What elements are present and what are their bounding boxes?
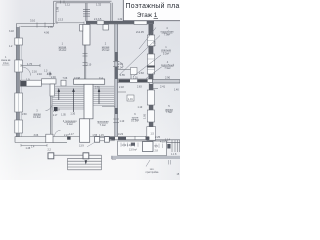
wing bottom dim line [57,22,84,24]
svg-text:C.A: C.A [99,77,103,80]
svg-text:4.25 1.1: 4.25 1.1 [160,141,169,144]
wing partition ticks [83,10,90,17]
svg-text:1.17: 1.17 [69,133,74,136]
newel box [61,80,66,86]
svg-text:13.98: 13.98 [74,77,81,80]
svg-text:3.1м: 3.1м [3,61,9,65]
svg-text:2.83: 2.83 [137,86,142,89]
pillar top of partition [83,25,90,46]
svg-text:1.40: 1.40 [174,89,179,92]
wing right wall [110,3,112,21]
bottom wall left wing (hollow) [15,137,80,143]
top wall A [17,23,56,25]
svg-text:2.10: 2.10 [37,73,42,76]
svg-text:3.23: 3.23 [118,132,124,136]
corridor wall [114,24,116,137]
upper wing top wall [54,0,112,2]
pier on bottom wall [46,134,53,142]
svg-text:1.10: 1.10 [120,120,125,123]
ticks on wall A [37,1,64,28]
small steps below annex left [112,156,170,167]
door arc bottom wall [55,130,61,136]
svg-text:1.1 8: 1.1 8 [171,153,177,156]
svg-text:2.35: 2.35 [48,26,53,29]
corridor line below stairs [102,105,115,107]
dim line below bottom wall [21,144,47,147]
dark blob door left of stairs [54,107,58,111]
svg-text:1.30: 1.30 [70,113,75,116]
svg-text:1.52 1.20: 1.52 1.20 [122,144,133,147]
stair arrows [58,88,101,112]
stair T bar [74,79,105,84]
dimension line left [21,64,40,67]
svg-text:2x1.35: 2x1.35 [136,30,144,34]
svg-text:2.03: 2.03 [154,41,157,46]
svg-text:1.04: 1.04 [118,67,123,70]
tiny dimension texts [9,2,179,151]
room labels [1,26,175,174]
window top wall C [134,21,147,25]
svg-text:1.55: 1.55 [120,74,125,77]
stair stem [84,84,93,119]
title box [123,0,181,21]
svg-text:3.10: 3.10 [30,19,36,23]
svg-text:1.01: 1.01 [133,77,138,80]
svg-text:2.46: 2.46 [51,76,56,79]
door arc left room [22,67,31,76]
annex inner ticks [121,143,163,149]
right thin verticals [172,140,180,152]
svg-text:Поэтажный план: Поэтажный план [126,2,181,10]
svg-text:2.18: 2.18 [119,86,124,89]
annex box bottom right [118,141,167,156]
stair left partition lower [50,96,52,137]
porch boxes bottom center [95,137,110,143]
dark blob right [167,144,170,149]
svg-text:1.50: 1.50 [22,112,28,116]
svg-text:1.32: 1.32 [96,2,102,6]
windows left wall [15,38,23,133]
svg-text:2.78: 2.78 [95,87,100,90]
svg-text:1.9: 1.9 [26,77,30,81]
stem lower box [80,119,90,143]
right wall upper [148,24,150,83]
small room below middle wall right [118,91,126,93]
svg-text:2.03: 2.03 [118,63,123,66]
stair treads left flight [53,86,85,109]
svg-text:1.98: 1.98 [47,72,52,75]
windows right wall upper [147,35,154,74]
door arc kitchen [118,62,124,68]
svg-text:2.63: 2.63 [55,109,60,112]
svg-text:13.9 м²: 13.9 м² [129,149,137,152]
central partition [83,45,85,79]
svg-text:1.05: 1.05 [61,113,66,116]
svg-text:2.83: 2.83 [139,72,144,75]
svg-text:1.98: 1.98 [56,6,60,12]
wing partition [85,3,87,21]
left outer wall double line [16,24,18,138]
terrace bottom left [54,155,102,170]
svg-text:1.05: 1.05 [142,113,146,119]
middle wall left segment [21,79,57,86]
leader diagonals right [119,28,162,79]
middle wall far right to edge [153,80,181,83]
annex inner texts [31,141,180,176]
svg-text:7.06: 7.06 [63,77,68,80]
svg-text:2.10: 2.10 [87,64,92,67]
svg-text:Этаж 1: Этаж 1 [137,12,158,19]
svg-text:1.76: 1.76 [27,62,33,66]
bottom wall right part [90,137,180,143]
svg-text:прихожая: прихожая [97,120,109,123]
svg-text:7.1м²: 7.1м² [100,123,106,127]
inner white cell [143,142,154,152]
svg-text:2.13: 2.13 [58,18,64,22]
svg-text:2.4 3.5: 2.4 3.5 [94,18,102,21]
stair treads right flight [93,86,114,105]
middle wall right segment [118,79,153,82]
svg-text:пристройка: пристройка [146,171,159,174]
svg-text:4 передняя: 4 передняя [63,119,77,123]
wall fills [16,27,19,137]
svg-text:3.06: 3.06 [34,134,39,137]
svg-text:4.06: 4.06 [44,31,50,35]
svg-text:1.55: 1.55 [92,134,97,137]
svg-text:1.11: 1.11 [65,2,70,6]
svg-text:1.32: 1.32 [118,18,123,21]
top wall C [86,20,154,22]
svg-text:7.5м²: 7.5м² [166,110,172,114]
svg-text:2.90: 2.90 [165,75,171,79]
WC partitions [118,69,131,71]
svg-text:1.10: 1.10 [138,106,143,109]
svg-text:2.25: 2.25 [155,135,161,139]
right lower wall [148,83,150,137]
small box near corridor top [103,25,109,31]
svg-text:3.18: 3.18 [9,30,14,33]
upper wing left wall [53,2,55,27]
stair left pier [50,84,55,96]
svg-text:13.9: 13.9 [79,145,84,148]
door arc near stairs bottom [46,104,53,111]
svg-text:1.01: 1.01 [128,98,133,101]
svg-text:2.41: 2.41 [160,85,166,89]
svg-text:1.17: 1.17 [53,114,58,117]
svg-text:1.15: 1.15 [99,134,104,137]
svg-text:3.1м²: 3.1м² [67,122,73,126]
